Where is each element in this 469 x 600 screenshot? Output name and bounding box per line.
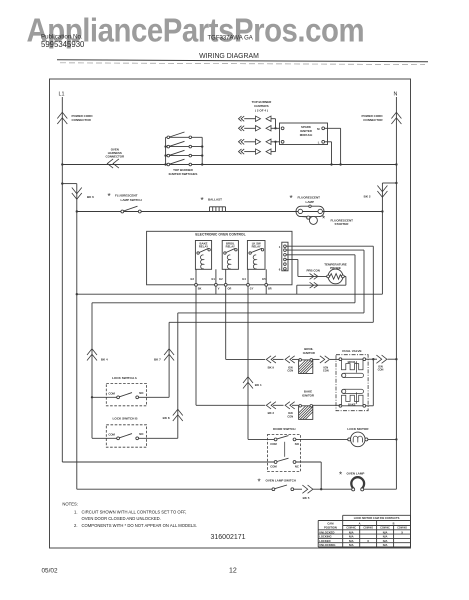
svg-text:COM: COM xyxy=(108,392,115,396)
connector IGN CON (broil right) xyxy=(313,356,341,373)
EOC pin connector P1 xyxy=(279,242,288,271)
door switch xyxy=(268,427,301,472)
wire H4 lock circuit A xyxy=(169,322,373,397)
svg-text:BALLAST: BALLAST xyxy=(208,197,222,201)
svg-text:LOCK SWITCH A: LOCK SWITCH A xyxy=(112,376,138,380)
svg-text:N/A: N/A xyxy=(383,543,388,547)
svg-text:LOCK SWITCH B: LOCK SWITCH B xyxy=(113,416,139,420)
svg-text:BK 9: BK 9 xyxy=(268,366,275,370)
wire door NC to lamp bus xyxy=(296,462,323,490)
svg-text:GY: GY xyxy=(250,287,254,290)
title WIRING DIAGRAM xyxy=(199,53,259,60)
connector BK 3 xyxy=(266,402,283,416)
connector BK 5 xyxy=(302,485,351,500)
svg-text:E2: E2 xyxy=(219,277,223,281)
connector BK 4 xyxy=(87,349,108,362)
svg-text:2.: 2. xyxy=(74,523,78,528)
wire module M to bus xyxy=(325,128,342,165)
svg-text:BK 8: BK 8 xyxy=(163,416,170,420)
wire N vertical run xyxy=(395,97,397,489)
svg-text:B: B xyxy=(393,522,395,526)
svg-text:OVEN LAMP: OVEN LAMP xyxy=(347,472,365,476)
connector IGN CON (bake left) xyxy=(285,402,299,419)
footer page number xyxy=(229,568,237,575)
spark igniter module xyxy=(280,123,328,145)
lock motor xyxy=(347,427,369,447)
svg-text:COM: COM xyxy=(270,442,277,446)
svg-text:NOTES:: NOTES: xyxy=(62,502,78,507)
schematic border frame xyxy=(50,79,411,548)
broil igniter xyxy=(299,359,313,374)
svg-text:BR: BR xyxy=(268,287,272,290)
svg-text:05/02: 05/02 xyxy=(42,567,58,574)
svg-text:RELAY: RELAY xyxy=(252,245,261,249)
svg-text:X: X xyxy=(367,539,369,543)
svg-text:COM-NO: COM-NO xyxy=(397,528,407,530)
svg-text:12: 12 xyxy=(229,568,237,575)
svg-text:UNLOCKING: UNLOCKING xyxy=(319,543,335,547)
wire pin4 to probe xyxy=(286,260,326,277)
svg-text:*: * xyxy=(322,215,325,224)
svg-text:CONNECTOR: CONNECTOR xyxy=(363,118,383,122)
wire module L to bus/N xyxy=(325,142,333,166)
svg-text:COMPONENTS WITH * DO NOT APPEA: COMPONENTS WITH * DO NOT APPEAR ON ALL M… xyxy=(82,523,198,528)
wire H1 neutral return xyxy=(76,286,383,295)
svg-text:N/A: N/A xyxy=(349,535,354,539)
svg-text:BK 4: BK 4 xyxy=(101,357,108,361)
svg-text:LOCKING: LOCKING xyxy=(319,535,331,539)
svg-text:BK: BK xyxy=(198,287,202,290)
wire fluorescent lamp bus xyxy=(76,210,384,212)
svg-text:*: * xyxy=(108,192,111,201)
connector BK 1 xyxy=(243,286,262,439)
svg-text:MODULE: MODULE xyxy=(300,133,313,137)
svg-text:LOCK MOTOR: LOCK MOTOR xyxy=(347,427,369,431)
wire L1 vertical run xyxy=(61,97,63,462)
connector BK 2 xyxy=(364,186,388,199)
svg-text:BK 3: BK 3 xyxy=(268,411,275,415)
node N xyxy=(394,92,398,98)
svg-text:CONNECTOR: CONNECTOR xyxy=(72,118,92,122)
svg-text:FLUORESCENT: FLUORESCENT xyxy=(115,193,138,197)
svg-text:N/A: N/A xyxy=(349,543,354,547)
lock switch B xyxy=(92,416,178,447)
svg-text:CON: CON xyxy=(378,368,384,372)
svg-text:BK 1: BK 1 xyxy=(255,383,262,387)
wire oven lamp to N xyxy=(364,488,397,490)
label top burner igniter switches xyxy=(169,168,198,176)
svg-text:N/A: N/A xyxy=(349,530,354,534)
svg-text:COM-NO: COM-NO xyxy=(363,528,373,530)
svg-text:CIRCUIT SHOWN WITH ALL CONTROL: CIRCUIT SHOWN WITH ALL CONTROLS SET TO O… xyxy=(82,509,187,514)
publication number text xyxy=(41,34,85,50)
lock motor cam switch contacts table xyxy=(318,515,410,547)
svg-text:COM: COM xyxy=(108,433,115,437)
probe connector PRB CON xyxy=(307,269,320,289)
svg-text:BK 5: BK 5 xyxy=(303,496,310,500)
svg-text:BK 2: BK 2 xyxy=(364,195,371,199)
wire H2 lock circuit xyxy=(92,303,355,439)
notes xyxy=(62,502,197,528)
wire pin2 run xyxy=(286,250,364,313)
svg-text:DOOR SWITCH: DOOR SWITCH xyxy=(273,427,296,431)
part number 316002171 xyxy=(211,534,246,541)
svg-text:UNLOCKED: UNLOCKED xyxy=(319,530,334,534)
wire probe return loop xyxy=(297,276,346,294)
svg-text:316002171: 316002171 xyxy=(211,534,246,541)
svg-text:5995345930: 5995345930 xyxy=(41,40,85,49)
wire pin1 run xyxy=(286,246,373,322)
wire to door switch COM xyxy=(248,438,274,440)
power cord connector (N side) xyxy=(362,112,402,124)
svg-text:CON: CON xyxy=(287,414,293,418)
lock switch A xyxy=(91,376,169,406)
svg-text:N/A: N/A xyxy=(383,530,388,534)
svg-text:IGNITOR: IGNITOR xyxy=(303,351,316,355)
svg-text:OR: OR xyxy=(228,287,232,290)
wire E2 to broil igniter row xyxy=(226,286,266,359)
top burner igniter switches xyxy=(164,132,203,166)
connector BK 9 xyxy=(266,356,283,370)
svg-text:A: A xyxy=(359,522,361,526)
svg-text:RELAY: RELAY xyxy=(226,245,235,249)
svg-text:BK 7: BK 7 xyxy=(154,357,161,361)
wire lock motor to N xyxy=(368,438,398,440)
svg-text:DUAL VALVE: DUAL VALVE xyxy=(342,349,361,353)
svg-text:OVEN DOOR CLOSED AND UNLOCKED.: OVEN DOOR CLOSED AND UNLOCKED. xyxy=(82,516,161,521)
svg-text:COM-NC: COM-NC xyxy=(346,528,356,530)
svg-text:IGNITOR: IGNITOR xyxy=(302,393,315,397)
wire bake valve to common xyxy=(366,359,374,406)
watermark AppliancePartsPros.com xyxy=(27,12,365,49)
fluorescent starter xyxy=(302,215,354,227)
wire valve common to N xyxy=(366,355,398,372)
wire L1 bottom bus to door COM xyxy=(62,461,274,463)
wire N branch to BK2 xyxy=(382,182,397,294)
wire H3 lock circuit B xyxy=(178,313,364,438)
svg-text:X: X xyxy=(401,530,403,534)
svg-text:N/A: N/A xyxy=(383,535,388,539)
electronic oven control box xyxy=(147,231,292,284)
svg-text:NC: NC xyxy=(295,464,299,468)
fluorescent lamp xyxy=(290,194,325,216)
relay bake (EOC) xyxy=(195,241,211,270)
temperature probe xyxy=(324,263,347,284)
svg-text:CON: CON xyxy=(287,369,293,373)
svg-text:FLUORESCENT: FLUORESCENT xyxy=(298,196,321,200)
svg-text:OVEN LAMP SWITCH: OVEN LAMP SWITCH xyxy=(266,479,296,483)
relay lock switch (EOC) xyxy=(247,241,265,270)
svg-text:TGF337AWA GA: TGF337AWA GA xyxy=(208,36,253,42)
svg-text:E1: E1 xyxy=(211,277,215,281)
EOC output terminals E3 E1 E2 E4 E5 xyxy=(190,269,271,290)
svg-text:1.: 1. xyxy=(74,509,78,514)
wire bake igniter to valve xyxy=(313,404,341,406)
footer date xyxy=(42,567,58,574)
power cord connector (L1 side) xyxy=(57,112,93,124)
label broil igniter xyxy=(303,347,316,355)
ballast xyxy=(201,196,226,212)
svg-text:PROBE: PROBE xyxy=(330,266,341,270)
svg-text:N: N xyxy=(394,92,398,98)
svg-text:WIRING DIAGRAM: WIRING DIAGRAM xyxy=(199,53,259,60)
svg-text:E5: E5 xyxy=(262,277,266,281)
svg-text:RELAY: RELAY xyxy=(199,245,208,249)
title underline xyxy=(57,60,428,65)
svg-text:*: * xyxy=(339,470,342,479)
top burner igniters (2 of 4) xyxy=(239,116,280,154)
connector BK 7 xyxy=(154,349,174,362)
wire L1 branch to BK6 xyxy=(61,182,77,489)
svg-text:N/A: N/A xyxy=(383,539,388,543)
svg-text:ELECTRONIC OVEN CONTROL: ELECTRONIC OVEN CONTROL xyxy=(195,233,245,237)
svg-text:CONNECTOR: CONNECTOR xyxy=(106,155,125,159)
node L1 xyxy=(59,92,65,98)
wire door NO to lock motor xyxy=(296,438,351,440)
svg-text:LAMP SWITCH: LAMP SWITCH xyxy=(121,198,142,202)
svg-text:POSITION: POSITION xyxy=(324,525,337,529)
svg-text:STARTER: STARTER xyxy=(335,222,350,226)
svg-text:LOCKED: LOCKED xyxy=(319,539,330,543)
oven lamp switch xyxy=(258,477,303,490)
svg-text:CAM: CAM xyxy=(327,522,334,526)
svg-text:N/A: N/A xyxy=(349,539,354,543)
svg-text:LOCK MOTOR CAM SW CONTACTS: LOCK MOTOR CAM SW CONTACTS xyxy=(354,516,400,520)
svg-text:*: * xyxy=(290,194,293,203)
connector BK 8 xyxy=(163,409,183,421)
svg-text:L: L xyxy=(318,140,320,144)
oven harness connector xyxy=(106,148,125,169)
relay broil (EOC) xyxy=(222,241,238,270)
svg-text:*: * xyxy=(201,196,204,205)
bake igniter xyxy=(299,405,313,420)
svg-text:BK 6: BK 6 xyxy=(87,195,94,199)
label top burner igniters xyxy=(252,100,273,113)
dual valve xyxy=(336,349,368,411)
svg-text:PRB CON: PRB CON xyxy=(307,269,320,273)
svg-text:IGNITERS: IGNITERS xyxy=(254,104,268,108)
svg-text:COM-NC: COM-NC xyxy=(380,528,390,530)
wire main L1 bus xyxy=(61,163,397,165)
svg-text:IGNITER SWITCHES: IGNITER SWITCHES xyxy=(169,172,198,176)
label bake igniter xyxy=(302,390,315,398)
wire oven lamp bus xyxy=(77,488,272,490)
fluorescent lamp switch xyxy=(108,192,142,213)
svg-text:COM: COM xyxy=(270,464,277,468)
wire E3 to bake igniter row xyxy=(196,286,265,405)
svg-text:*: * xyxy=(258,477,261,486)
svg-text:L1: L1 xyxy=(59,92,65,98)
oven lamp xyxy=(339,470,364,491)
svg-text:( 2 OF 4 ): ( 2 OF 4 ) xyxy=(255,109,268,113)
connector IGN CON (broil left) xyxy=(285,356,299,373)
svg-text:LAMP: LAMP xyxy=(306,200,315,204)
model number xyxy=(208,36,253,42)
svg-text:CON: CON xyxy=(323,369,329,373)
svg-text:E4: E4 xyxy=(242,277,246,281)
connector BK 6 xyxy=(72,188,94,200)
wire pin3 run xyxy=(286,255,355,303)
svg-text:E3: E3 xyxy=(190,277,194,281)
